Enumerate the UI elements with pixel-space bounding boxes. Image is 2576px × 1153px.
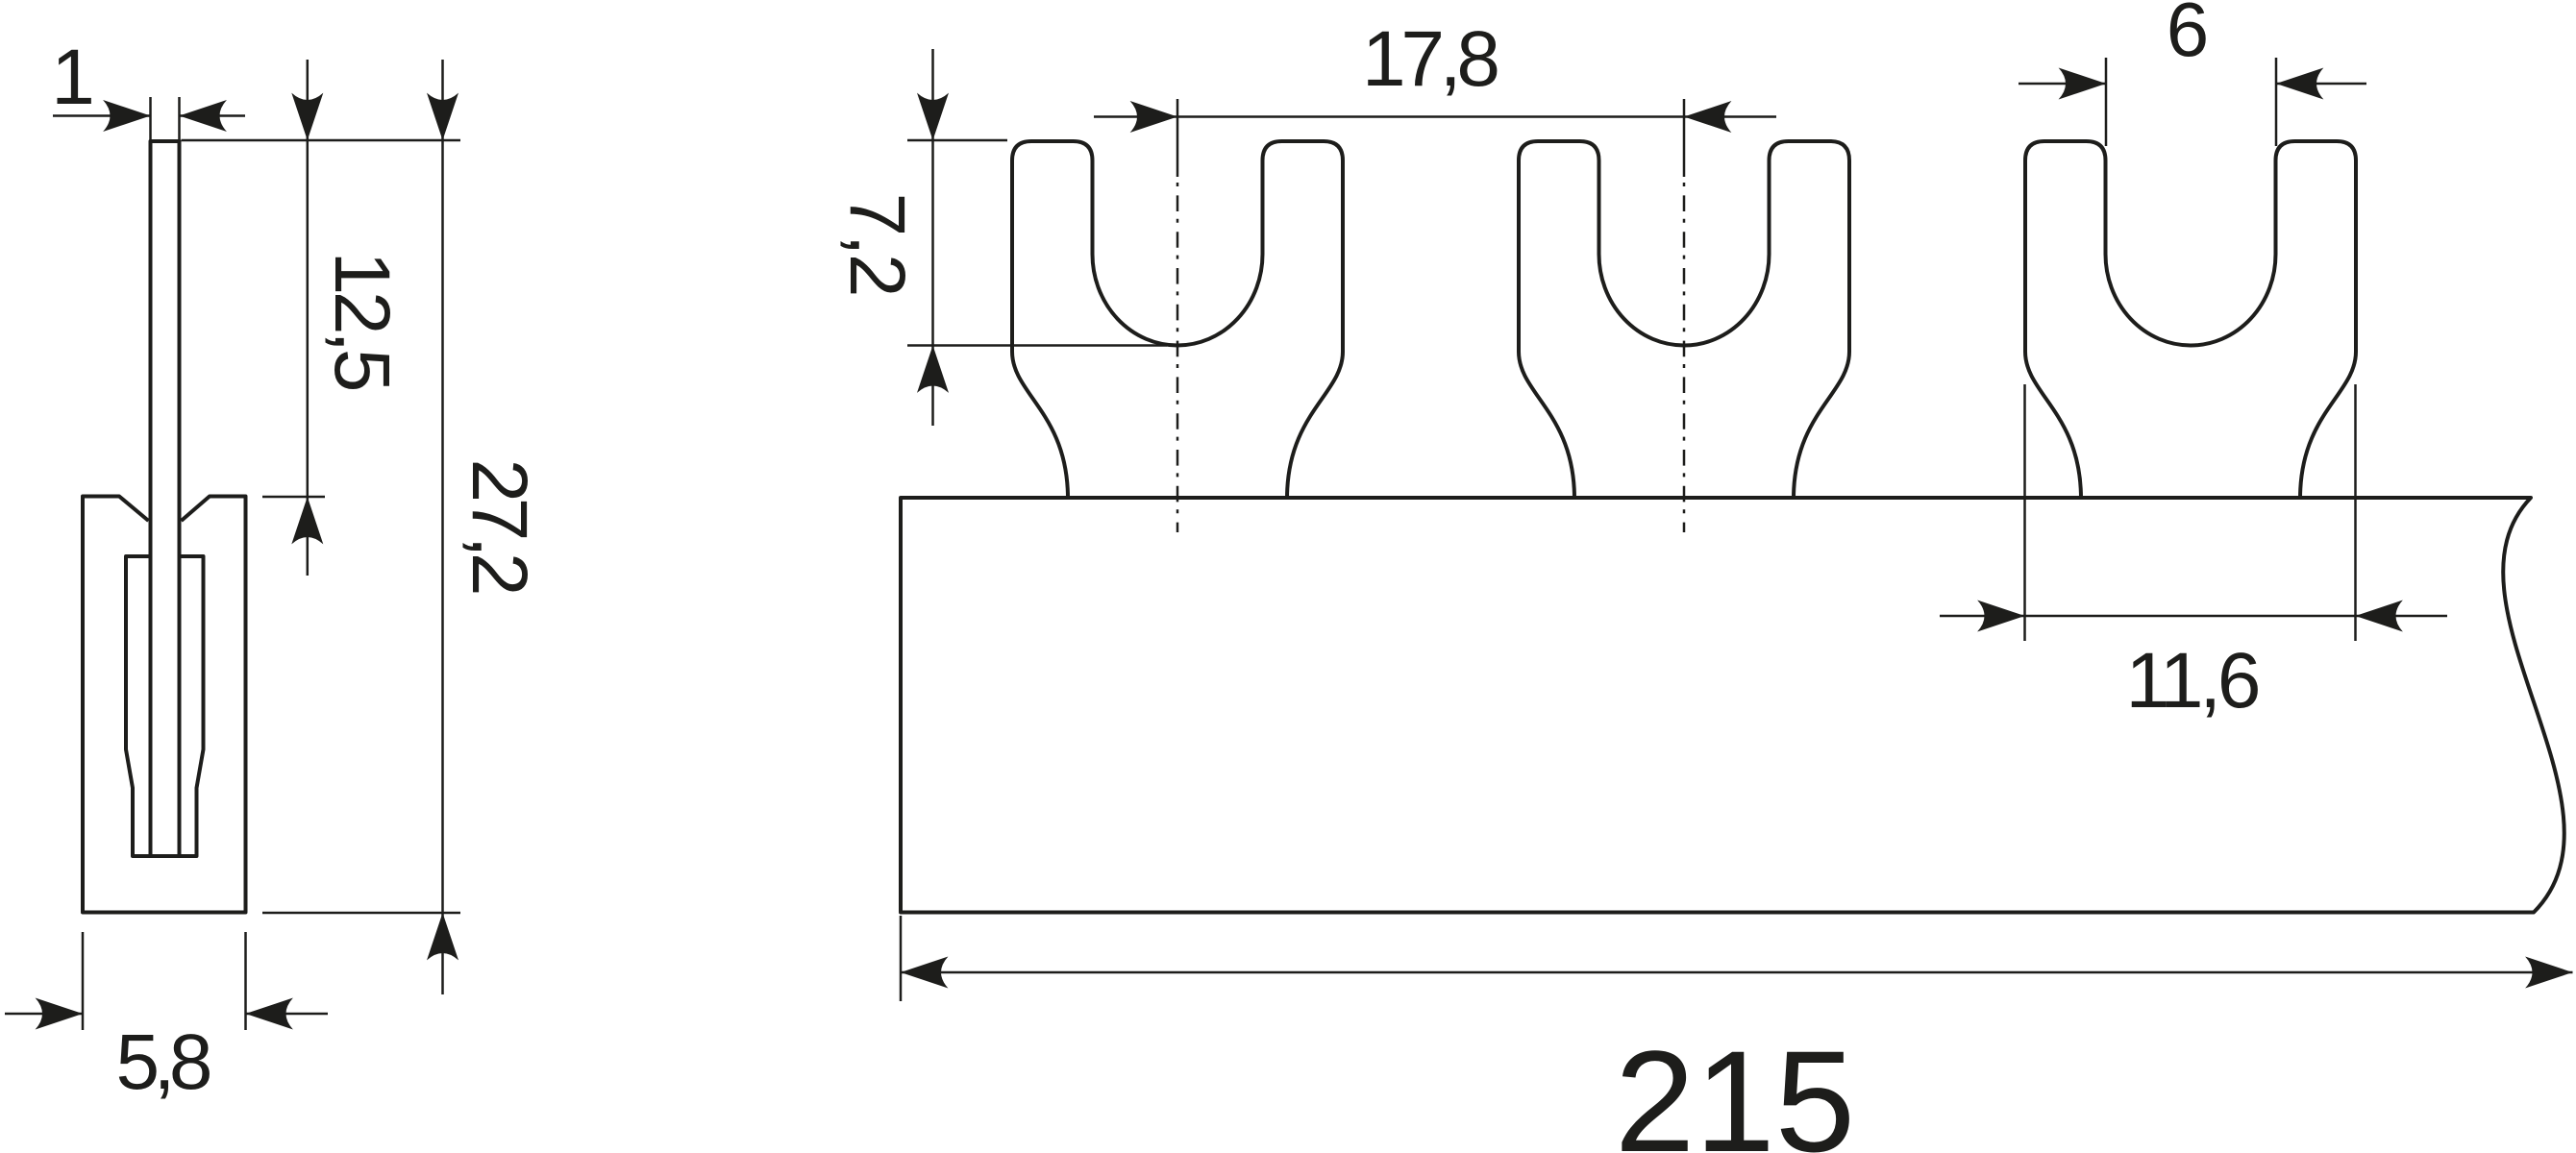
- centerline fork 2: [1683, 99, 1686, 532]
- dimension 11,6 (fork outer width): [1940, 384, 2447, 724]
- centerline fork 1: [1177, 99, 1179, 532]
- svg-text:17,8: 17,8: [1362, 15, 1500, 103]
- front view: busbar body with break line: [901, 498, 2564, 913]
- fork terminal 3: [2025, 141, 2356, 499]
- side view: pin blade: [151, 141, 180, 856]
- dimension 12,5 (blade top to housing top): [182, 60, 461, 576]
- dimension 7,2 (fork slot depth): [833, 49, 1167, 426]
- dimension 5,8 (housing width): [5, 932, 328, 1106]
- svg-text:1: 1: [51, 34, 95, 121]
- dimension 215 (overall length): [901, 916, 2573, 1153]
- svg-text:6: 6: [2167, 0, 2210, 72]
- svg-text:11,6: 11,6: [2126, 637, 2262, 724]
- svg-text:7,2: 7,2: [833, 193, 921, 298]
- fork terminal 2: [1519, 141, 1849, 499]
- svg-text:12,5: 12,5: [318, 252, 406, 393]
- dimension 27,2 (total height): [262, 60, 543, 994]
- dimension 6 (fork slot width): [2019, 0, 2366, 146]
- svg-text:27,2: 27,2: [456, 459, 543, 597]
- side view: inner contact: [126, 556, 204, 856]
- svg-text:5,8: 5,8: [116, 1018, 213, 1106]
- dimension 1 (blade thickness): [51, 34, 245, 141]
- svg-text:215: 215: [1615, 1020, 1855, 1153]
- side view: insulator housing outline: [83, 497, 246, 913]
- dimension 17,8 (fork pitch): [1094, 15, 1776, 133]
- fork terminal 1: [1012, 141, 1343, 499]
